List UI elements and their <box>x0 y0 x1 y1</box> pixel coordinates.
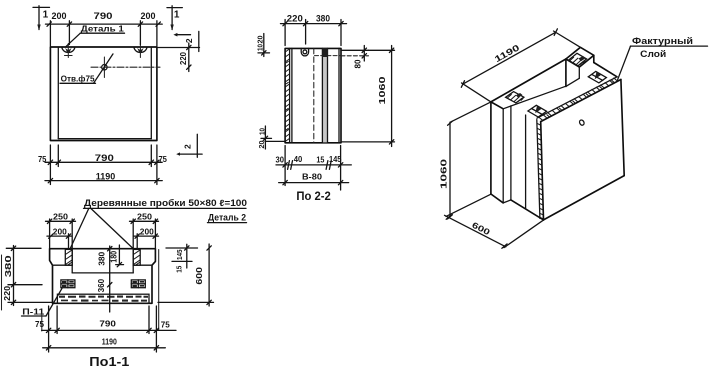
dashed center line section 2-2 <box>313 48 315 142</box>
facing layer left edge band hatched <box>537 120 544 219</box>
facing layer lines section 2-2 <box>290 48 292 142</box>
left lifting loop recess (Detail 1) <box>62 44 75 58</box>
svg-text:В-80: В-80 <box>302 171 322 181</box>
svg-text:75: 75 <box>38 155 47 164</box>
left dim overhang tick <box>41 313 43 331</box>
svg-text:600: 600 <box>195 266 204 284</box>
wooden plug right hatched <box>133 249 140 265</box>
dim text 145 <box>329 155 342 164</box>
bottom dimension line 1190 <box>45 178 162 182</box>
loop recess near hatched <box>506 92 524 103</box>
svg-text:790: 790 <box>99 318 116 328</box>
svg-text:Деталь 1: Деталь 1 <box>81 23 124 33</box>
title Po 1-1 <box>89 355 129 369</box>
svg-text:200: 200 <box>140 226 154 236</box>
bottom dims 30 40 15 145 <box>276 146 351 191</box>
right edge extension line <box>158 250 160 331</box>
svg-text:1190: 1190 <box>96 172 116 182</box>
svg-text:По 2-2: По 2-2 <box>296 191 331 203</box>
dim text 30 <box>276 155 285 164</box>
label Detail 2 <box>208 213 247 223</box>
top dimension line 200 790 200 <box>46 21 163 46</box>
svg-text:380: 380 <box>98 251 107 266</box>
dim text 200 left <box>52 11 67 21</box>
svg-text:200: 200 <box>52 11 67 21</box>
svg-text:380: 380 <box>4 254 13 277</box>
wooden plug square near <box>528 105 547 117</box>
svg-text:180: 180 <box>110 250 119 262</box>
leader V to plugs <box>70 208 134 249</box>
left rib top edges <box>491 86 566 109</box>
top dim 250 left <box>46 212 76 249</box>
dim text 790 top <box>94 11 113 21</box>
svg-text:П-11: П-11 <box>22 306 44 316</box>
svg-text:Деталь 2: Деталь 2 <box>208 213 246 223</box>
wooden plug black section 2-2 <box>322 48 328 57</box>
section marker 2 bottom right <box>176 134 202 157</box>
left rib slab verticals <box>491 102 526 209</box>
svg-text:145: 145 <box>177 249 184 260</box>
svg-text:20: 20 <box>259 140 266 148</box>
dim text 1060 <box>377 76 387 104</box>
dim text 1190 <box>96 172 116 182</box>
svg-text:75: 75 <box>161 320 171 329</box>
inner wall gray strip <box>322 48 327 142</box>
small dims 10 20 bottom left <box>259 126 285 149</box>
section marker 2 top right <box>173 31 198 51</box>
svg-text:По1-1: По1-1 <box>89 355 129 369</box>
svg-text:790: 790 <box>94 11 113 21</box>
hole on facade <box>579 119 585 126</box>
left rib inner edge <box>57 47 59 139</box>
svg-text:380: 380 <box>316 13 330 23</box>
svg-text:75: 75 <box>158 155 167 164</box>
svg-text:40: 40 <box>294 155 303 164</box>
rib front face lines <box>53 264 153 266</box>
label Otv f75 <box>60 74 96 83</box>
dim text 75 left bottom <box>35 320 45 329</box>
dim text 220 top <box>287 13 303 23</box>
top dim 250 right <box>130 212 159 249</box>
dim line 1190 section 1-1 <box>43 346 166 350</box>
svg-text:Деревянные пробки 50×80 ℓ=100: Деревянные пробки 50×80 ℓ=100 <box>84 198 247 208</box>
dim text 80 <box>353 59 362 69</box>
channel fixture P-11 left <box>61 280 75 288</box>
svg-text:15: 15 <box>177 266 184 273</box>
top dim 200 right <box>134 226 159 248</box>
dim 600 axo <box>445 215 545 248</box>
svg-text:80: 80 <box>353 59 362 69</box>
inner bottom edge <box>58 138 151 140</box>
front elevation view: panel outline <box>50 47 156 141</box>
svg-text:250: 250 <box>53 212 68 222</box>
facing layer strip plan <box>57 294 149 303</box>
svg-text:1: 1 <box>174 10 180 21</box>
svg-text:250: 250 <box>137 212 152 222</box>
svg-text:360: 360 <box>97 278 106 292</box>
svg-text:2: 2 <box>182 144 192 149</box>
svg-text:10: 10 <box>260 128 267 135</box>
section 2-2: outer profile <box>285 48 341 142</box>
dim text 790 bottom <box>95 153 114 163</box>
dim 1060 axo <box>439 102 491 219</box>
dim text 380 top <box>316 13 330 23</box>
label wooden plugs 50x80 l=100 <box>84 198 248 208</box>
main face outline <box>541 80 625 220</box>
dimension 220 right side <box>157 43 200 72</box>
center dim line 380 360 <box>97 246 112 312</box>
svg-text:1190: 1190 <box>102 336 117 346</box>
bottom dims 75 790 75 section 1-1 <box>42 306 176 352</box>
label P-11 <box>22 288 63 316</box>
dim 80 extensions <box>341 46 369 62</box>
svg-text:790: 790 <box>95 153 114 163</box>
wooden plug left hatched <box>65 249 72 265</box>
step edge to top right corner <box>594 55 617 77</box>
svg-text:2: 2 <box>184 38 194 43</box>
small dims 20 10 top left <box>257 34 269 57</box>
dim 1060 right <box>341 46 395 147</box>
left rib bottom edges <box>491 194 544 220</box>
hole 75mm <box>91 57 160 78</box>
label Detail 1 <box>66 23 124 46</box>
title Po 2-2 <box>296 191 331 203</box>
left chain dims 380 220 <box>3 246 52 306</box>
dim text 790 bottom <box>99 318 116 328</box>
dimension line B-80 row <box>279 180 349 184</box>
label B-80 <box>302 171 322 181</box>
dim text 40 <box>294 155 303 164</box>
top dimension 220 380 <box>281 20 347 46</box>
dim text 1190 section 1-1 <box>102 336 117 346</box>
section marker 1 right <box>167 6 182 31</box>
svg-text:Отв.ф75: Отв.ф75 <box>61 74 95 83</box>
hidden recess depth dashed line <box>315 55 342 57</box>
channel fixture P-11 right <box>131 280 145 288</box>
right inner edge line <box>338 48 340 142</box>
right dim 15 145 <box>166 244 198 272</box>
facing layer top band <box>537 77 621 122</box>
dim text 15 <box>316 155 324 164</box>
dim 180 inner <box>110 245 124 267</box>
dim text 75 left <box>38 155 47 164</box>
right lifting loop recess <box>134 44 147 58</box>
svg-text:30: 30 <box>276 155 285 164</box>
hole leader line <box>94 54 114 83</box>
svg-text:75: 75 <box>35 320 45 329</box>
svg-text:10: 10 <box>257 44 264 51</box>
right dim 600 <box>158 244 214 306</box>
label Fakturny sloy <box>617 36 707 81</box>
section 1-1: outline <box>50 249 156 304</box>
dim text 75 right <box>158 155 167 164</box>
svg-text:1: 1 <box>43 10 49 21</box>
far rib front verticals <box>566 59 579 86</box>
svg-text:145: 145 <box>329 155 342 164</box>
svg-text:220: 220 <box>3 285 12 301</box>
dim 1190 axo <box>461 29 580 102</box>
svg-text:15: 15 <box>316 155 324 164</box>
cavity walls <box>72 249 133 273</box>
svg-text:220: 220 <box>287 13 303 23</box>
section marker 1 left <box>33 6 50 31</box>
bottom dimension line 75 790 75 <box>45 145 162 185</box>
svg-text:Фактурный: Фактурный <box>632 36 693 46</box>
svg-text:220: 220 <box>179 52 188 65</box>
far rib loop recess hatched <box>568 53 586 66</box>
svg-text:200: 200 <box>53 226 67 236</box>
dim text 75 right bottom <box>161 320 171 329</box>
stray left edge line <box>1 255 3 310</box>
wooden plug square far <box>588 71 606 83</box>
3D axonometric view: U-opening back edge <box>491 59 566 102</box>
svg-text:Слой: Слой <box>640 49 666 59</box>
facing layer hatch section 2-2 <box>285 49 289 142</box>
loop recess section 2-2 <box>301 48 308 55</box>
svg-text:1060: 1060 <box>439 158 449 189</box>
svg-text:1060: 1060 <box>377 76 387 104</box>
dim text 200 right <box>141 11 156 21</box>
far rib top face <box>566 47 594 67</box>
svg-text:200: 200 <box>141 11 156 21</box>
top dim 200 left <box>47 226 72 248</box>
right rib inner edge <box>150 47 152 139</box>
svg-text:20: 20 <box>257 35 264 43</box>
